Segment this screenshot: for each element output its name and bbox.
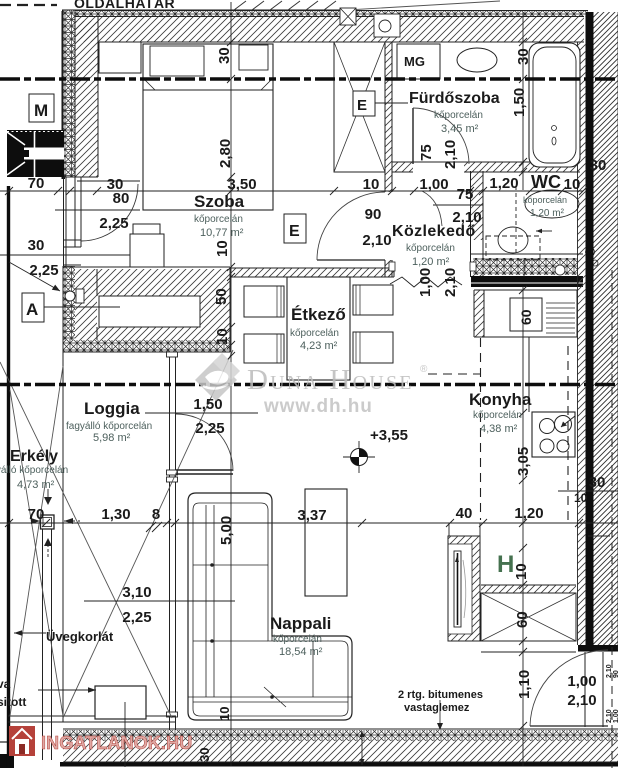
bathroom sink xyxy=(457,48,497,72)
svg-text:1,30: 1,30 xyxy=(101,506,130,523)
bathroom door leaf+arc xyxy=(413,108,469,164)
svg-text:2,10: 2,10 xyxy=(442,140,459,169)
svg-text:kőporcelán: kőporcelán xyxy=(273,634,322,645)
erkely / loggia divider xyxy=(62,352,64,722)
svg-text:30: 30 xyxy=(590,157,607,174)
svg-text:vastaglemez: vastaglemez xyxy=(404,702,470,714)
svg-text:köporcelán: köporcelán xyxy=(523,195,567,205)
bathtub xyxy=(529,43,580,167)
right neighbour wall (dense hatch) xyxy=(578,12,618,652)
svg-text:3,05: 3,05 xyxy=(515,447,532,476)
washing machine MG xyxy=(397,44,440,79)
svg-text:4,38 m²: 4,38 m² xyxy=(480,423,518,435)
marker box M xyxy=(29,94,54,122)
marker box E (szoba) xyxy=(284,214,306,243)
wall between Kozlekedo and WC xyxy=(471,171,484,277)
marker box E (shaft) xyxy=(353,91,408,116)
svg-text:Szoba: Szoba xyxy=(194,192,245,211)
svg-text:18,54 m²: 18,54 m² xyxy=(279,646,323,658)
svg-text:2,10: 2,10 xyxy=(442,268,459,297)
svg-text:INGATLANOK.HU: INGATLANOK.HU xyxy=(41,733,192,753)
svg-text:OLDALHATÁR: OLDALHATÁR xyxy=(74,0,175,11)
left wall lower mass with window to loggia xyxy=(63,266,230,352)
svg-text:1,20: 1,20 xyxy=(489,175,518,192)
shaft E with X xyxy=(334,42,385,172)
svg-text:kőporcelán: kőporcelán xyxy=(434,110,483,121)
svg-text:H: H xyxy=(497,551,514,578)
svg-text:30: 30 xyxy=(216,47,233,64)
svg-text:2,10: 2,10 xyxy=(362,232,391,249)
loggia / nappali glass wall xyxy=(167,352,178,730)
wall pillar detail in top wall xyxy=(374,14,400,37)
vertical dim line x231 xyxy=(227,2,235,766)
svg-text:1,20: 1,20 xyxy=(514,505,543,522)
svg-text:30: 30 xyxy=(28,237,45,254)
svg-text:3,10: 3,10 xyxy=(122,584,151,601)
svg-text:fagyálló kőporcelán: fagyálló kőporcelán xyxy=(0,465,68,476)
svg-text:Közlekedő: Közlekedő xyxy=(392,223,476,240)
dim texts horizontal xyxy=(28,157,607,709)
loggia bottom edge lines xyxy=(8,716,176,722)
svg-text:+3,55: +3,55 xyxy=(370,427,408,444)
passage break zigzag xyxy=(390,277,462,287)
dim stagger line 75 xyxy=(433,204,483,206)
erkely small arrows xyxy=(44,489,52,557)
marker box A xyxy=(22,293,120,322)
svg-text:3,45 m²: 3,45 m² xyxy=(441,123,479,135)
svg-text:A: A xyxy=(26,300,38,319)
toilet xyxy=(486,186,579,277)
left window zone (Szoba french window) xyxy=(0,177,140,267)
coffee table nappali xyxy=(305,489,347,596)
svg-text:1,50: 1,50 xyxy=(511,88,528,117)
sitott arrow to mat xyxy=(38,687,96,693)
svg-text:8: 8 xyxy=(152,506,160,523)
svg-text:40: 40 xyxy=(456,505,473,522)
desk + chair szoba xyxy=(130,224,164,267)
svg-text:1,10: 1,10 xyxy=(516,670,533,699)
bed xyxy=(99,42,273,210)
svg-text:2,80: 2,80 xyxy=(217,139,234,168)
svg-text:60: 60 xyxy=(518,309,534,325)
bottom floor slab xyxy=(0,729,618,768)
svg-text:Konyha: Konyha xyxy=(469,390,532,409)
loggia floor mat rect xyxy=(95,686,146,767)
svg-text:www.dh.hu: www.dh.hu xyxy=(263,396,373,417)
svg-text:80: 80 xyxy=(113,190,130,207)
svg-text:70: 70 xyxy=(28,506,45,523)
svg-text:WC: WC xyxy=(531,172,561,192)
etkezo chairs xyxy=(244,285,393,363)
svg-text:1,00: 1,00 xyxy=(417,268,434,297)
3,10 dim line xyxy=(84,600,235,602)
svg-text:va: va xyxy=(0,677,11,691)
svg-text:75: 75 xyxy=(418,144,435,161)
svg-text:Üvegkorlát: Üvegkorlát xyxy=(46,629,114,644)
loggia sliding door leaf + arc xyxy=(145,413,258,474)
svg-text:kőporcelán: kőporcelán xyxy=(473,410,522,421)
section line 2 xyxy=(0,383,618,386)
svg-text:2,25: 2,25 xyxy=(195,420,224,437)
svg-text:10: 10 xyxy=(217,707,232,721)
svg-text:Erkély: Erkély xyxy=(10,448,58,465)
level marker +3,55 xyxy=(343,441,375,473)
dim texts rotated xyxy=(197,47,588,762)
dashed line right edge xyxy=(611,270,613,768)
erkely corner post xyxy=(41,515,55,529)
svg-text:75: 75 xyxy=(457,186,474,203)
szoba balcony-door swing xyxy=(81,184,138,241)
svg-text:2,25: 2,25 xyxy=(122,609,151,626)
svg-text:60: 60 xyxy=(514,611,531,628)
crossed box on boundary xyxy=(340,8,356,25)
svg-text:Étkező: Étkező xyxy=(291,305,346,324)
svg-text:1,00: 1,00 xyxy=(567,673,596,690)
main horizontal dim line y191 xyxy=(0,187,587,195)
svg-text:4,23 m²: 4,23 m² xyxy=(300,340,338,352)
svg-text:sitott: sitott xyxy=(0,695,26,709)
H sliding door pocket xyxy=(448,523,480,641)
erkely outer edge thick line xyxy=(7,186,10,768)
main horizontal dim line y523 xyxy=(0,519,618,532)
property line OLDALHATAR top xyxy=(62,0,501,179)
watermark ingatlanok.hu xyxy=(9,726,192,756)
sofa L-shape xyxy=(188,493,352,720)
svg-text:kőporcelán: kőporcelán xyxy=(194,214,243,225)
svg-text:®: ® xyxy=(420,364,428,375)
svg-text:2,25: 2,25 xyxy=(99,215,128,232)
section line 1 xyxy=(0,77,618,80)
section arrow black box xyxy=(7,130,64,177)
2,25 leader arrow left wall xyxy=(9,262,60,291)
svg-text:4,73 m²: 4,73 m² xyxy=(17,479,55,491)
svg-text:3,37: 3,37 xyxy=(297,507,326,524)
watermark duna house xyxy=(195,353,428,417)
svg-text:5,00: 5,00 xyxy=(218,516,235,545)
svg-text:30: 30 xyxy=(197,748,212,762)
svg-text:Nappali: Nappali xyxy=(270,614,331,633)
svg-text:10: 10 xyxy=(574,491,588,505)
svg-text:30: 30 xyxy=(515,48,532,65)
stove xyxy=(532,412,575,457)
shaft wall strip right of szoba xyxy=(385,42,392,277)
svg-text:10: 10 xyxy=(363,176,380,193)
room labels xyxy=(0,90,567,714)
svg-text:Fürdőszoba: Fürdőszoba xyxy=(409,90,500,107)
svg-text:90: 90 xyxy=(365,206,382,223)
etkezo table xyxy=(287,277,350,380)
svg-text:70: 70 xyxy=(28,175,45,192)
svg-text:kőporcelán: kőporcelán xyxy=(406,243,455,254)
svg-text:1,00: 1,00 xyxy=(613,709,618,723)
svg-text:M: M xyxy=(34,101,48,120)
svg-text:5,98 m²: 5,98 m² xyxy=(93,432,131,444)
svg-text:MG: MG xyxy=(404,54,425,69)
svg-text:E: E xyxy=(357,97,367,114)
svg-text:1,20 m²: 1,20 m² xyxy=(412,256,450,268)
kitchen black band + counter xyxy=(474,290,577,337)
uvegkorlat arrow xyxy=(14,630,46,636)
szoba-kozlekedo door xyxy=(317,192,385,260)
svg-text:30: 30 xyxy=(589,474,606,491)
dashed boundary top-left xyxy=(0,4,57,6)
entry door bottom right xyxy=(530,650,608,727)
svg-text:90: 90 xyxy=(613,670,618,678)
tiny dim text right edge xyxy=(606,664,618,723)
kitchen dashed boundary xyxy=(428,338,481,520)
left exterior wall upper xyxy=(63,11,98,178)
svg-text:2 rtg. bitumenes: 2 rtg. bitumenes xyxy=(398,689,483,701)
bathroom bottom wall xyxy=(392,162,580,172)
loggia diagonal cross lines xyxy=(0,350,233,718)
svg-text:10,77 m²: 10,77 m² xyxy=(200,227,244,239)
wc door small arc xyxy=(422,191,442,226)
svg-text:50: 50 xyxy=(213,288,230,305)
svg-text:kőporcelán: kőporcelán xyxy=(290,328,339,339)
top exterior wall xyxy=(64,11,588,43)
vertical dim line x523 bathroom xyxy=(519,12,527,766)
svg-text:3,50: 3,50 xyxy=(227,176,256,193)
WC floor bottom: insulation + black membrane band xyxy=(471,248,598,288)
svg-text:1,00: 1,00 xyxy=(419,176,448,193)
svg-text:10: 10 xyxy=(564,176,581,193)
svg-text:E: E xyxy=(289,223,300,240)
2rtg leader arrow in slab xyxy=(360,700,444,765)
svg-text:2,10: 2,10 xyxy=(567,692,596,709)
svg-text:1,20 m²: 1,20 m² xyxy=(530,208,565,219)
svg-text:10: 10 xyxy=(214,240,231,257)
szoba bottom thin wall xyxy=(230,268,394,277)
svg-text:Duna House: Duna House xyxy=(247,364,414,396)
svg-text:fagyálló kőporcelán: fagyálló kőporcelán xyxy=(66,421,152,432)
svg-text:10: 10 xyxy=(513,563,530,580)
svg-text:Loggia: Loggia xyxy=(84,399,140,418)
svg-text:10: 10 xyxy=(214,328,231,345)
kitchen shaft X-box xyxy=(481,585,576,652)
